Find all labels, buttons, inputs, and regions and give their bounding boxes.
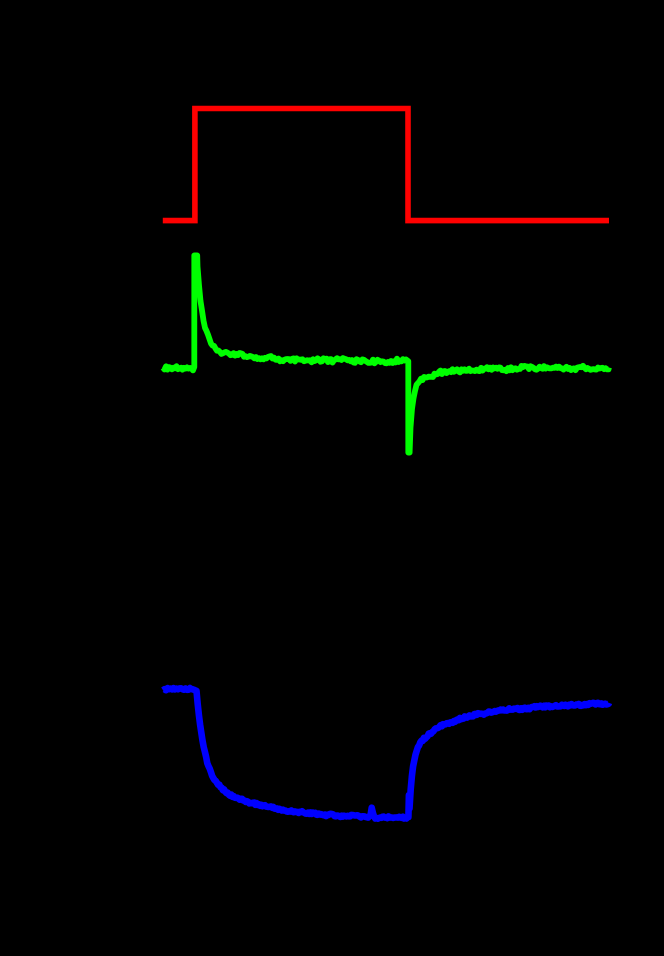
red voltage-step trace (square command pulse) bbox=[163, 109, 609, 221]
blue slow transient trace bbox=[163, 688, 609, 819]
green current trace (capacitive transients with noise) bbox=[163, 255, 609, 452]
